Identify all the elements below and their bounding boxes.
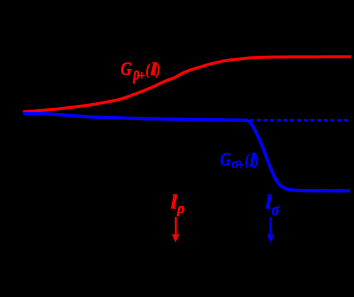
svg-text:ρ: ρ	[176, 201, 185, 217]
curve Gsigma+ (blue curve, flat then dropping)	[23, 114, 350, 191]
svg-text:+: +	[138, 68, 145, 83]
dashed continuation of blue flat line	[250, 119, 348, 122]
svg-text:G: G	[121, 58, 132, 79]
svg-text:l: l	[171, 191, 177, 213]
label l_rho	[171, 191, 185, 217]
label G_rho+(l)	[121, 58, 161, 84]
svg-text:G: G	[220, 149, 231, 170]
arrow l_sigma (blue, pointing down)	[267, 217, 275, 243]
svg-text:+: +	[238, 158, 244, 173]
label l_sigma	[266, 190, 280, 219]
svg-text:σ: σ	[272, 201, 280, 219]
arrow l_rho (red, pointing down)	[172, 217, 180, 242]
label G_sigma+(l)	[220, 149, 258, 173]
curve Grho+ (red RG flow curve, rising to plateau)	[23, 57, 351, 112]
